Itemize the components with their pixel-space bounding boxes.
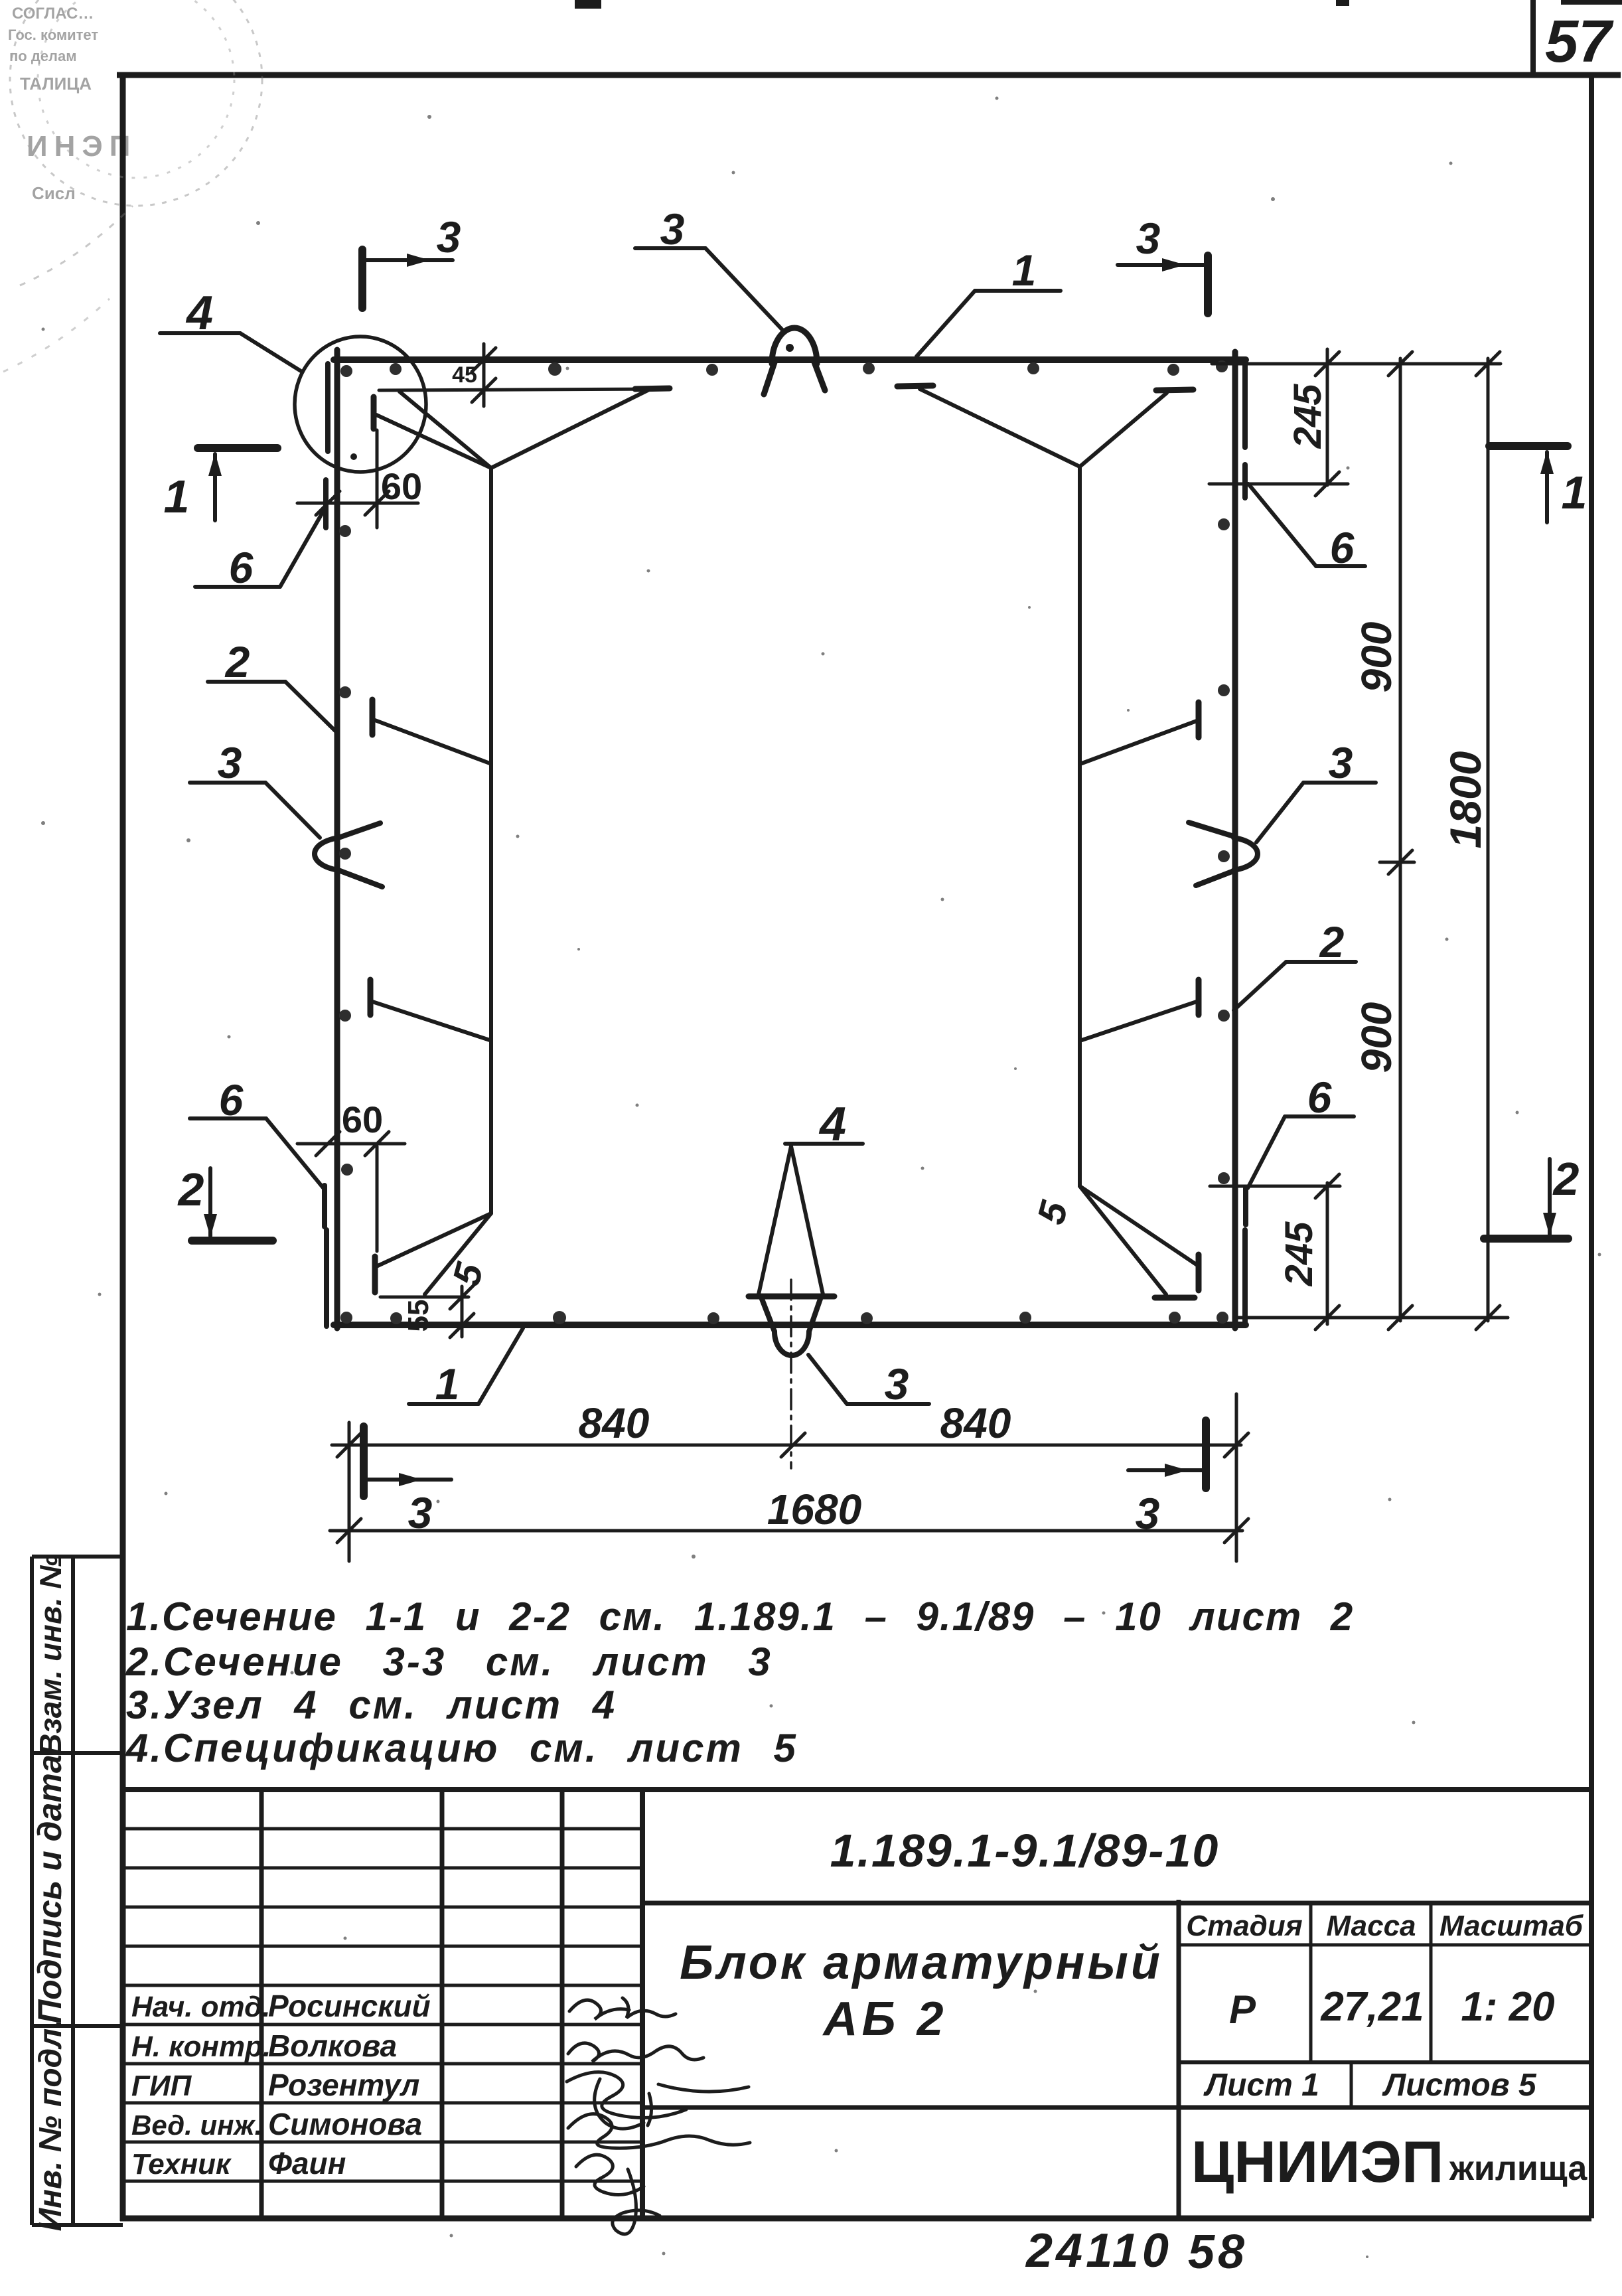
callout 3 left loop [190,738,320,838]
tie wire right lower [1082,1001,1199,1040]
weld dots right chord [1218,518,1230,530]
left margin strip divider [71,1557,75,2225]
title block top line [123,1787,1591,1792]
dim line 840-840 bottom [332,1444,1241,1447]
svg-text:1800: 1800 [1441,751,1490,848]
callout 6 bottom-right [1248,1073,1354,1188]
signature Volkova [568,2043,703,2062]
section mark 2 left [177,1164,273,1241]
callout 2 left chord [208,637,336,731]
sheet right border line [1589,75,1594,2218]
svg-text:Взам. инв. №: Взам. инв. № [33,1554,68,1756]
sheet left border line [120,72,126,2221]
dim chain 245 bottom vertical [1326,1183,1329,1324]
bottom-right bar end tick [1196,1255,1202,1290]
callout 6 bottom-left [190,1075,325,1189]
corner angle bottom-left upper tick [322,1186,327,1227]
dim extension top chord right [1212,362,1501,366]
dim tick line mid 900 [1380,861,1414,864]
corner angle bottom-left [324,1230,329,1326]
svg-text:ГИП: ГИП [131,2070,192,2102]
signature Rosinskiy [569,1998,676,2019]
bottom-left bar end tick [372,1257,378,1292]
svg-text:Стадия: Стадия [1186,1910,1302,1942]
svg-text:3: 3 [1329,738,1353,787]
svg-text:1.Сечение 1-1 и 2-2 см. 1.: 1.Сечение 1-1 и 2-2 см. 1.189.1 – 9.1/89… [126,1594,1354,1639]
corner angle top-right lower tick [1242,465,1248,498]
top-left rebar end thick tick [635,388,670,389]
svg-text:Симонова: Симонова [268,2107,422,2141]
title table vertical col3 [560,1790,565,2218]
section mark 1 left [164,448,277,522]
svg-text:2: 2 [177,1164,204,1215]
svg-text:Масштаб: Масштаб [1439,1910,1584,1942]
svg-text:Гос. комитет: Гос. комитет [8,27,98,43]
callout 6 top-right [1248,484,1365,572]
svg-text:2.Сечение 3-3 см. лист 3: 2.Сечение 3-3 см. лист 3 [125,1640,773,1684]
svg-text:3.Узел 4 см. лист 4: 3.Узел 4 см. лист 4 [126,1683,617,1727]
svg-text:СОГЛАС…: СОГЛАС… [12,5,94,23]
svg-text:1: 1 [1562,467,1587,518]
section mark 3 bottom-right [1128,1420,1206,1538]
doc number box bottom line [642,1901,1591,1906]
dim 45 vertical line [482,344,486,406]
svg-text:6: 6 [229,543,254,592]
weld dots top chord [340,365,352,377]
left margin strip cell line 1 [32,1751,123,1755]
sheet top border line [117,72,1621,78]
dim chain 1800 vertical [1487,358,1490,1321]
bottom-left splay wire a [376,1213,491,1266]
scan speck top edge right [1336,0,1349,6]
lifting loop bottom bar [749,1294,834,1300]
svg-text:АБ 2: АБ 2 [822,1993,947,2046]
callout 3 top loop [635,204,782,330]
svg-text:Н. контр.: Н. контр. [131,2030,271,2063]
svg-text:по делам: по делам [9,48,77,64]
signature Fain [576,2155,660,2234]
section mark 3 top-right [1118,214,1208,313]
dim line 1680 bottom [330,1529,1242,1533]
svg-text:Росинский: Росинский [268,1989,431,2023]
top chord bar [334,356,1246,363]
svg-text:60: 60 [342,1099,383,1140]
svg-text:Розентул: Розентул [268,2068,419,2102]
corner angle bottom-right [1242,1230,1248,1324]
callout 3 right loop [1256,738,1376,842]
callout 1 bottom chord [409,1328,523,1409]
lifting loop right upper leg [1189,822,1234,836]
bottom-right rebar tick horizontal [1155,1295,1195,1301]
list row divider [1350,2062,1353,2107]
svg-text:Инв. № подл.: Инв. № подл. [33,2019,68,2231]
dim 55 vertical line [461,1286,464,1337]
svg-text:4: 4 [818,1098,846,1151]
bottom-right splay wire b [1080,1186,1166,1294]
left chord bar [334,350,340,1328]
right chord bar [1232,352,1238,1328]
svg-text:245: 245 [1278,1221,1321,1287]
svg-text:4: 4 [185,287,213,340]
top-right rebar tick left [897,386,933,386]
svg-text:3: 3 [1136,1489,1160,1538]
svg-text:Нач. отд.: Нач. отд. [131,1991,271,2023]
stamp circle inner [38,0,234,178]
dim 60 top-left line [297,502,418,505]
tie wire left upper [375,720,490,763]
svg-text:58: 58 [1188,2226,1248,2279]
svg-text:2: 2 [1319,917,1345,966]
svg-text:ИНЭП: ИНЭП [27,130,137,163]
top-left horizontal rebar line [379,389,670,390]
dim 45 slashes [472,348,496,402]
stadia box divider vertical [1177,1900,1181,2218]
dim extension bottom left [348,1422,351,1561]
tie tick right upper [1196,702,1202,737]
lifting loop bottom arc [774,1332,809,1355]
svg-text:Масса: Масса [1326,1910,1416,1942]
tie tick left lower [368,980,374,1015]
svg-text:6: 6 [219,1075,244,1124]
svg-text:60: 60 [381,465,422,507]
svg-text:900: 900 [1353,1002,1400,1073]
name box bottom line [642,2105,1591,2110]
svg-text:6: 6 [1330,523,1355,572]
svg-text:Р: Р [1229,1987,1256,2032]
svg-text:1: 1 [1012,246,1037,295]
top-right rebar tick right [1156,390,1193,390]
dim 60 bottom-left slashes [316,1132,389,1156]
lifting loop left upper leg [338,823,380,838]
stamp dash arc [20,206,133,285]
dim 60 bottom-left extension [376,1146,379,1251]
stamp dash arc 2 [3,299,110,372]
page number cell divider [1530,0,1536,75]
svg-text:245: 245 [1286,384,1329,449]
lifting loop bottom left leg [762,1299,774,1332]
dim extension 245 bottom [1210,1185,1340,1188]
title table vertical col1 [259,1790,264,2218]
lifting loop left lower leg [338,870,382,887]
svg-text:Блок арматурный: Блок арматурный [680,1936,1163,1989]
weld dot small inside circle [350,453,357,460]
svg-text:840: 840 [940,1399,1011,1447]
svg-text:1: 1 [164,471,190,522]
weld dots bottom chord [340,1312,352,1324]
top-left bar end tick [371,397,377,429]
signature Simonova [568,2114,750,2149]
stadia col divider 1 [1309,1903,1313,2062]
callout 4 detail circle [160,287,302,372]
centerline bottom loop dash-dot [790,1280,792,1468]
top-right splay wire b [1080,393,1167,467]
corner angle top-right [1242,364,1248,447]
signature Rozentul [567,2072,749,2129]
stadia col divider 2 [1430,1903,1433,2062]
svg-text:Листов 5: Листов 5 [1382,2068,1537,2103]
dim slashes bottom [337,1433,1248,1543]
svg-text:2: 2 [224,637,250,686]
svg-text:ТАЛИЦА: ТАЛИЦА [20,74,92,94]
svg-text:6: 6 [1307,1073,1333,1122]
top-left splay wire c [491,390,649,468]
lifting loop right arc [1234,838,1258,870]
bottom-left splay wire b [425,1213,491,1294]
bottom-right splay wire a [1080,1186,1197,1265]
svg-text:3: 3 [408,1488,433,1537]
svg-text:3: 3 [660,204,685,254]
svg-text:Техник: Техник [131,2148,232,2181]
detail circle node 4 [295,337,426,472]
svg-text:57: 57 [1545,9,1614,75]
dim 60 bottom-left line [297,1142,405,1146]
scan streak top right corner [1561,0,1622,5]
svg-text:Фаин: Фаин [268,2146,346,2181]
dim 55 slashes [450,1285,474,1338]
lifting loop left arc [315,838,338,870]
svg-text:1680: 1680 [767,1486,861,1533]
svg-text:840: 840 [579,1399,650,1447]
svg-text:3: 3 [437,212,461,262]
sheet bottom border line [120,2216,1591,2222]
svg-text:24110: 24110 [1025,2224,1172,2277]
dim chain 245 top vertical [1326,349,1329,485]
left margin strip cell line 2 [32,2024,123,2028]
dim extension 245 top [1209,483,1348,486]
dim extension bottom right [1235,1394,1238,1561]
dim chain 900 vertical [1399,358,1402,1321]
callout 6 top-left [195,508,325,592]
svg-text:3: 3 [1136,214,1161,263]
corner angle bottom-right upper tick [1243,1188,1248,1225]
inner wire vertical left [489,468,493,1213]
top-left splay wire a [376,415,491,468]
section mark 3 bottom-left [364,1426,451,1537]
callout 2 right chord [1234,917,1356,1010]
section mark 1 right [1489,446,1587,522]
dim 60 top-left slashes [316,491,389,515]
svg-text:1: 20: 1: 20 [1461,1984,1554,2030]
title table vertical col4 main divider [640,1790,645,2218]
svg-text:2: 2 [1552,1153,1580,1205]
lifting loop right lower leg [1196,871,1234,885]
svg-text:3: 3 [218,738,242,787]
inner wire vertical right [1078,467,1082,1186]
svg-text:45: 45 [452,362,477,388]
callout 3 bottom loop [808,1355,929,1409]
corner angle top-left lower tick [323,480,329,528]
dim extension bottom chord right [1234,1316,1508,1320]
svg-text:Лист 1: Лист 1 [1203,2068,1319,2103]
bottom chord bar [334,1322,1246,1328]
scan speck top edge center [575,0,601,9]
weld dot top loop center [786,344,794,352]
svg-text:Сисл: Сисл [32,183,76,203]
dim 60 top-left extension [376,430,379,528]
dim 55 extension line [380,1296,469,1299]
svg-text:Подпись и дата: Подпись и дата [31,1754,68,2023]
callout 1 top chord [917,246,1061,356]
tie wire right upper [1082,720,1199,763]
top-right splay wire a [920,389,1080,467]
svg-text:1.189.1-9.1/89-10: 1.189.1-9.1/89-10 [830,1825,1220,1876]
svg-text:4.Спецификацию см. лист 5: 4.Спецификацию см. лист 5 [125,1726,798,1770]
lifting loop bottom right leg [809,1299,820,1332]
svg-text:3: 3 [885,1359,909,1409]
list row top line [1179,2060,1591,2064]
lifting loop top right leg [814,360,825,390]
left margin strip top edge [32,1555,123,1559]
svg-text:55: 55 [402,1300,435,1332]
left margin strip outer line [30,1557,34,2225]
stamp circle outer [10,0,262,206]
corner angle top-left [325,364,331,451]
section mark 3 top-left [362,212,461,308]
top-left splay wire b [400,392,491,468]
svg-text:900: 900 [1353,622,1400,693]
svg-text:жилища: жилища [1449,2149,1587,2188]
dim slashes right side [1315,352,1500,1330]
section mark 2 right [1484,1153,1580,1239]
tie tick right lower [1196,980,1202,1015]
callout 4 bottom loop [759,1098,863,1294]
lifting loop top left leg [764,360,775,394]
title table row lines [124,1829,642,2181]
left margin strip bottom edge [32,2223,123,2227]
svg-text:Волкова: Волкова [268,2028,397,2063]
svg-text:1: 1 [435,1359,460,1409]
svg-text:27,21: 27,21 [1320,1984,1424,2030]
lifting loop top [772,328,817,364]
svg-text:Вед. инж.: Вед. инж. [131,2109,262,2141]
title table vertical col2 [440,1790,445,2218]
tie wire left lower [370,1001,490,1040]
stadia header underline [1179,1944,1591,1947]
weld dots left chord [339,525,351,537]
tie tick left upper [370,700,376,735]
svg-text:ЦНИИЭП: ЦНИИЭП [1191,2129,1443,2194]
